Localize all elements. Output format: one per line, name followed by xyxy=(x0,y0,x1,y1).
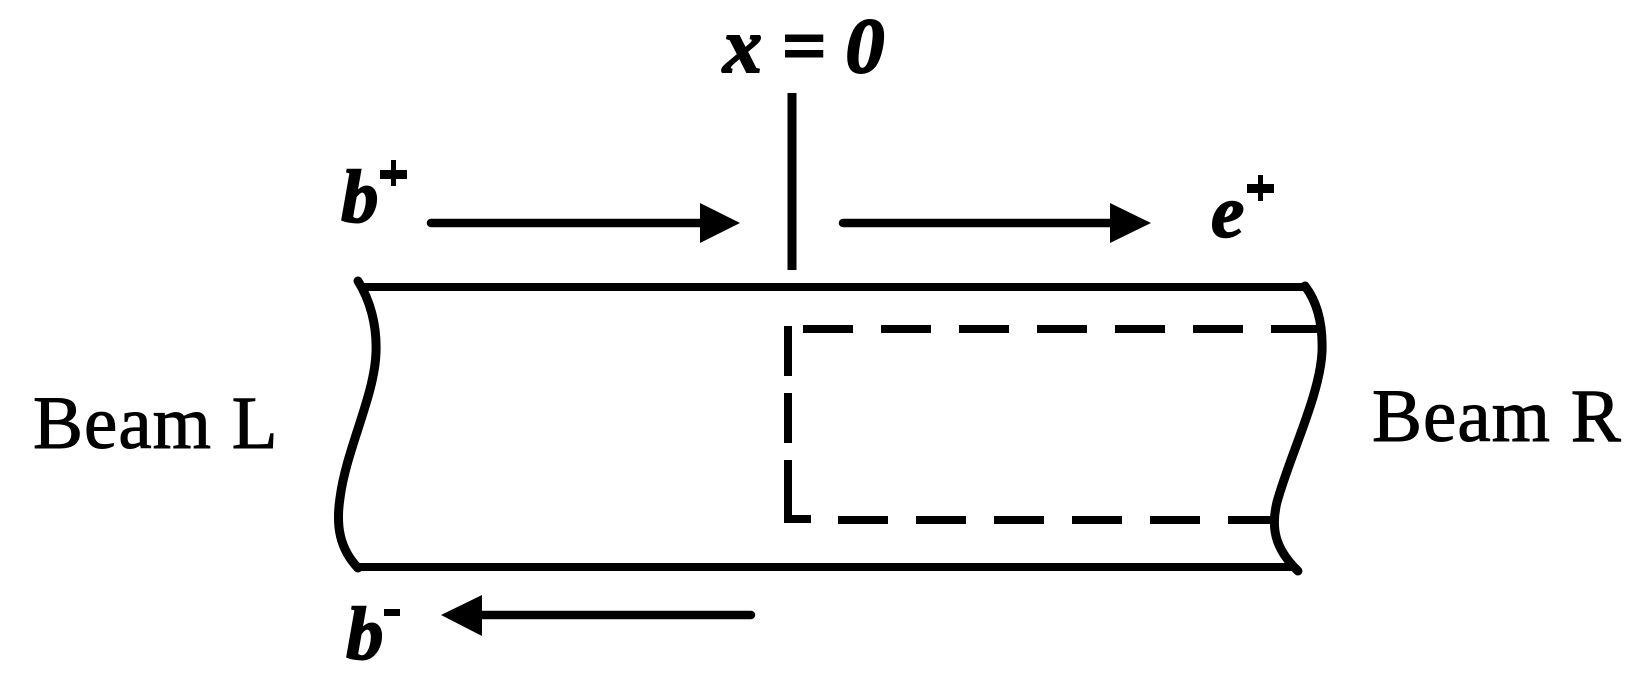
beam bottom edge line xyxy=(354,563,1293,571)
dashed region left edge dash 1 xyxy=(784,326,792,376)
svg-text:Beam L: Beam L xyxy=(33,382,279,465)
superscript plus of e+ xyxy=(1247,175,1274,201)
dashed region bottom edge xyxy=(838,516,1272,524)
svg-text:x = 0: x = 0 xyxy=(722,2,884,89)
svg-text:Beam R: Beam R xyxy=(1372,375,1622,458)
beam right break S-curve xyxy=(1274,286,1322,571)
arrow b- reflected wave xyxy=(441,595,751,636)
svg-text:b: b xyxy=(341,156,379,239)
superscript minus of b- xyxy=(384,609,400,616)
wire interface marker vertical line at x=0 xyxy=(788,93,797,270)
arrow e+ transmitted wave xyxy=(843,203,1151,243)
arrow b+ incident wave xyxy=(431,203,740,243)
beam top edge line xyxy=(359,283,1308,291)
dashed region bottom-left corner xyxy=(788,460,811,519)
beam left break S-curve xyxy=(338,281,376,568)
svg-text:b: b xyxy=(346,593,384,676)
superscript plus of b+ xyxy=(380,160,407,186)
svg-text:e: e xyxy=(1211,171,1244,254)
dashed region left edge dash 2 xyxy=(784,393,792,443)
dashed region top edge xyxy=(803,325,1318,333)
